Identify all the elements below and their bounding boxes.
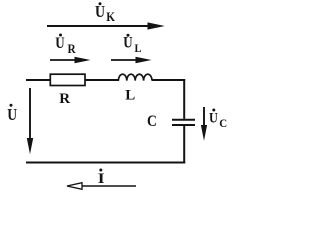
svg-text:R: R — [68, 42, 77, 57]
inductor L — [118, 74, 152, 80]
current arrow I — [67, 183, 136, 190]
svg-text:U: U — [209, 109, 218, 125]
wire top-left segment — [26, 79, 51, 81]
wire right lower — [183, 126, 185, 163]
label U — [7, 104, 17, 125]
voltage arrow U_K — [47, 22, 165, 29]
label I — [98, 169, 105, 187]
voltage arrow U_L — [111, 57, 152, 63]
wire bottom — [26, 162, 185, 164]
voltage arrow U (left side) — [27, 88, 33, 154]
svg-text:U: U — [55, 35, 64, 52]
label U_C — [209, 109, 227, 130]
svg-text:U: U — [95, 3, 105, 21]
svg-text:L: L — [125, 88, 135, 104]
capacitor C plates — [172, 120, 195, 125]
svg-text:K: K — [106, 9, 115, 24]
label U_K — [95, 2, 116, 24]
svg-text:C: C — [147, 113, 157, 130]
wire right upper — [183, 79, 185, 119]
svg-text:U: U — [7, 106, 17, 125]
svg-text:L: L — [135, 42, 142, 55]
wire inductor to top-right corner — [152, 79, 185, 81]
label U_R — [55, 34, 76, 57]
svg-text:R: R — [59, 91, 70, 107]
wire resistor to inductor — [85, 79, 119, 81]
voltage arrow U_C — [201, 107, 207, 141]
resistor R — [50, 74, 85, 85]
svg-text:U: U — [123, 35, 132, 52]
svg-text:I: I — [98, 169, 105, 187]
voltage arrow U_R — [50, 57, 91, 63]
svg-text:C: C — [219, 118, 227, 130]
label U_L — [123, 34, 142, 55]
